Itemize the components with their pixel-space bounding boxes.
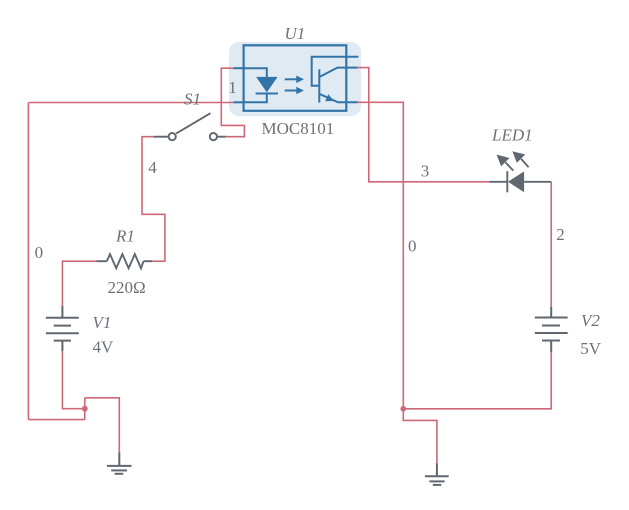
LED1 arrow heads — [497, 155, 510, 167]
U1 pin 1 stub — [234, 67, 244, 69]
svg-text:S1: S1 — [184, 90, 201, 109]
U1 internal LED — [244, 68, 278, 102]
svg-text:2: 2 — [556, 225, 565, 244]
svg-text:0: 0 — [35, 243, 44, 262]
wire net0 left vertical — [27, 103, 29, 420]
wire U1 collector to LED cathode — [358, 68, 490, 182]
wire left junction to left ground — [85, 398, 120, 454]
ground (left) — [107, 453, 132, 474]
wire V2 bottom to right junction — [403, 352, 551, 409]
wire LED anode to V2 top — [550, 182, 552, 307]
op-amp U1 opto box — [244, 45, 347, 111]
LED LED1 — [490, 159, 552, 192]
switch S1 — [153, 113, 225, 140]
U1 emitter arrow head — [325, 94, 334, 101]
svg-text:4: 4 — [148, 158, 157, 177]
svg-text:4V: 4V — [93, 338, 115, 357]
svg-text:220Ω: 220Ω — [108, 278, 146, 297]
svg-text:0: 0 — [408, 236, 417, 255]
LED1 triangle — [508, 171, 524, 192]
svg-text:U1: U1 — [285, 24, 306, 43]
svg-text:V2: V2 — [581, 311, 600, 330]
svg-text:3: 3 — [421, 162, 430, 181]
resistor R1 — [97, 254, 153, 268]
svg-text:5V: 5V — [580, 339, 602, 358]
U1 phototransistor — [312, 57, 359, 103]
node right junction — [400, 406, 406, 412]
svg-text:MOC8101: MOC8101 — [262, 119, 335, 138]
svg-text:1: 1 — [228, 78, 237, 97]
ground (right) — [425, 464, 449, 485]
U1 light arrows — [285, 76, 304, 95]
wire top horizontal to U1 pin2 — [28, 102, 233, 104]
wire V1 bottom to left junction — [62, 351, 84, 409]
U1 pin 2 stub — [234, 101, 244, 103]
battery V2 — [535, 307, 568, 352]
svg-text:V1: V1 — [93, 313, 112, 332]
svg-text:LED1: LED1 — [491, 125, 533, 144]
wire net0 bottom left segment — [28, 398, 84, 420]
opto highlight U1 — [229, 42, 361, 116]
wire U1 pin1 to switch right — [221, 68, 244, 137]
svg-text:R1: R1 — [115, 227, 135, 246]
node left junction — [82, 406, 88, 412]
wire right junction to right ground — [403, 409, 437, 465]
wire switch left to resistor right — [142, 137, 165, 262]
battery V1 — [46, 306, 79, 351]
wire resistor left to V1 top — [62, 261, 96, 306]
wire U1 emitter down to right junction — [358, 102, 404, 409]
